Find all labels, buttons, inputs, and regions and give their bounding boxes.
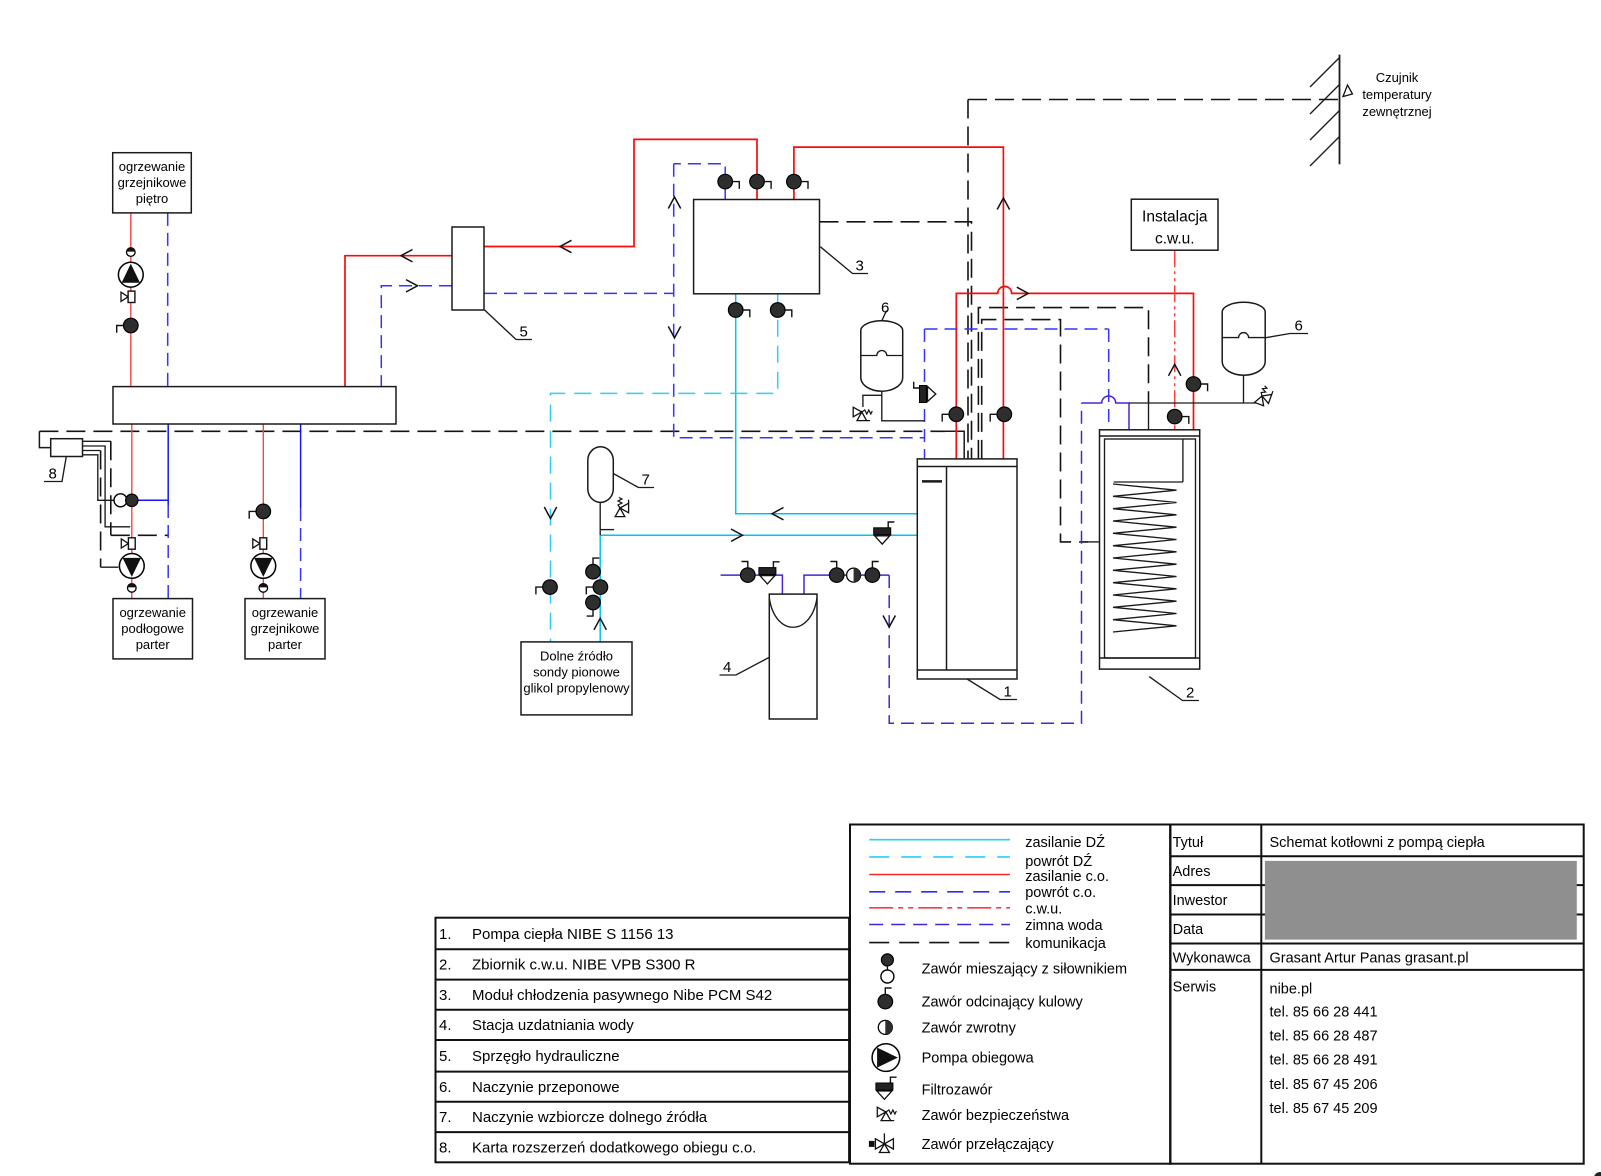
svg-text:glikol propylenowy: glikol propylenowy (523, 681, 630, 696)
svg-text:2: 2 (1186, 685, 1194, 702)
svg-text:3: 3 (856, 258, 864, 275)
svg-text:grzejnikowe: grzejnikowe (118, 175, 187, 190)
svg-text:powrót DŹ: powrót DŹ (1025, 853, 1092, 870)
svg-text:Zawór bezpieczeństwa: Zawór bezpieczeństwa (922, 1108, 1070, 1124)
svg-text:Grasant Artur Panas grasant.pl: Grasant Artur Panas grasant.pl (1270, 951, 1469, 967)
svg-text:7.: 7. (439, 1109, 452, 1126)
svg-text:c.w.u.: c.w.u. (1155, 231, 1195, 248)
svg-text:zasilanie c.o.: zasilanie c.o. (1025, 869, 1109, 885)
svg-text:Serwis: Serwis (1173, 980, 1217, 996)
svg-text:Pompa ciepła NIBE S 1156 13: Pompa ciepła NIBE S 1156 13 (472, 926, 674, 943)
svg-text:Zawór odcinający kulowy: Zawór odcinający kulowy (922, 995, 1084, 1011)
svg-text:Stacja uzdatniania wody: Stacja uzdatniania wody (472, 1017, 634, 1034)
svg-text:zimna woda: zimna woda (1025, 918, 1103, 934)
svg-text:Pompa obiegowa: Pompa obiegowa (922, 1051, 1035, 1067)
svg-text:Data: Data (1173, 922, 1205, 938)
svg-text:Instalacja: Instalacja (1142, 209, 1208, 226)
svg-text:tel. 85 67 45 206: tel. 85 67 45 206 (1270, 1077, 1378, 1093)
svg-text:parter: parter (268, 637, 303, 652)
svg-text:Czujnik: Czujnik (1376, 70, 1419, 85)
svg-text:grzejnikowe: grzejnikowe (251, 621, 320, 636)
svg-text:tel. 85 66 28 487: tel. 85 66 28 487 (1270, 1029, 1378, 1045)
svg-text:Moduł chłodzenia pasywnego Nib: Moduł chłodzenia pasywnego Nibe PCM S42 (472, 987, 772, 1004)
svg-text:7: 7 (642, 472, 650, 489)
svg-text:Karta rozszerzeń dodatkowego o: Karta rozszerzeń dodatkowego obiegu c.o. (472, 1140, 756, 1157)
svg-text:nibe.pl: nibe.pl (1270, 982, 1313, 998)
svg-text:parter: parter (136, 637, 171, 652)
svg-text:ogrzewanie: ogrzewanie (119, 159, 186, 174)
svg-text:6: 6 (1295, 318, 1303, 335)
svg-text:3.: 3. (439, 987, 452, 1004)
svg-text:2.: 2. (439, 957, 452, 974)
svg-text:c.w.u.: c.w.u. (1025, 902, 1062, 918)
svg-text:Wykonawca: Wykonawca (1173, 951, 1252, 967)
svg-text:powrót c.o.: powrót c.o. (1025, 885, 1096, 901)
svg-text:8.: 8. (439, 1140, 452, 1157)
svg-text:zewnętrznej: zewnętrznej (1362, 104, 1431, 119)
svg-text:6: 6 (881, 300, 889, 317)
svg-text:5: 5 (520, 324, 528, 341)
svg-text:Naczynie wzbiorcze dolnego źró: Naczynie wzbiorcze dolnego źródła (472, 1109, 708, 1126)
svg-text:Zbiornik c.w.u. NIBE VPB S300: Zbiornik c.w.u. NIBE VPB S300 R (472, 957, 696, 974)
svg-text:tel. 85 66 28 441: tel. 85 66 28 441 (1270, 1004, 1378, 1020)
svg-text:podłogowe: podłogowe (121, 621, 184, 636)
svg-text:zasilanie DŹ: zasilanie DŹ (1025, 834, 1105, 851)
svg-text:Sprzęgło hydrauliczne: Sprzęgło hydrauliczne (472, 1048, 620, 1065)
svg-text:6.: 6. (439, 1079, 452, 1096)
svg-text:sondy pionowe: sondy pionowe (533, 665, 620, 680)
svg-text:Zawór mieszający z siłownikiem: Zawór mieszający z siłownikiem (922, 961, 1127, 977)
svg-text:ogrzewanie: ogrzewanie (119, 605, 186, 620)
svg-text:Tytuł: Tytuł (1173, 835, 1204, 851)
svg-text:5.: 5. (439, 1048, 452, 1065)
svg-text:Zawór zwrotny: Zawór zwrotny (922, 1020, 1017, 1036)
svg-text:ogrzewanie: ogrzewanie (252, 605, 319, 620)
svg-text:Schemat kotłowni z pompą ciepł: Schemat kotłowni z pompą ciepła (1270, 835, 1486, 851)
svg-text:1.: 1. (439, 926, 452, 943)
svg-text:temperatury: temperatury (1362, 87, 1432, 102)
svg-text:4.: 4. (439, 1017, 452, 1034)
svg-text:tel. 85 67 45 209: tel. 85 67 45 209 (1270, 1101, 1378, 1117)
svg-text:8: 8 (49, 466, 57, 483)
svg-text:Inwestor: Inwestor (1173, 893, 1228, 909)
svg-text:Naczynie przeponowe: Naczynie przeponowe (472, 1079, 620, 1096)
svg-text:tel. 85 66 28 491: tel. 85 66 28 491 (1270, 1053, 1378, 1069)
svg-text:piętro: piętro (136, 191, 169, 206)
svg-text:Zawór przełączający: Zawór przełączający (922, 1137, 1055, 1153)
svg-text:Dolne źródło: Dolne źródło (540, 649, 613, 664)
svg-text:Filtrozawór: Filtrozawór (922, 1082, 993, 1098)
svg-text:4: 4 (723, 659, 731, 676)
svg-text:komunikacja: komunikacja (1025, 936, 1107, 952)
svg-text:1: 1 (1004, 684, 1012, 701)
svg-text:Adres: Adres (1173, 864, 1211, 880)
